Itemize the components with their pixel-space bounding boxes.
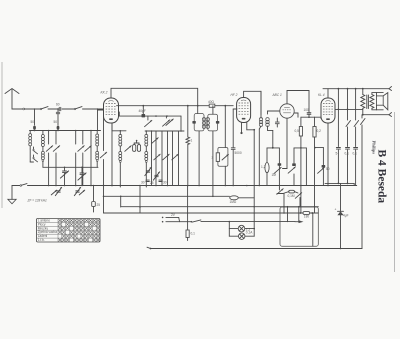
loop B left arm: [288, 148, 296, 186]
svg-text:1M: 1M: [272, 173, 277, 177]
capacitor C12: [318, 148, 330, 186]
trimmer T5b: [51, 190, 57, 195]
pilot lamp LP1: [238, 225, 245, 232]
bus Q y213: [104, 212, 319, 214]
svg-text:5·: 5·: [336, 152, 339, 156]
svg-text:ZF = 128 kHz: ZF = 128 kHz: [27, 199, 48, 203]
IF1 tuned circuit B: [206, 106, 219, 197]
bus bottom y247: [147, 247, 362, 249]
resistor R3: [212, 153, 229, 162]
trimmer T2: [53, 146, 59, 152]
osc coil L5 lower: [145, 146, 148, 187]
antenna coil L1: [29, 131, 32, 150]
resistor R4 0.5M: [295, 117, 303, 213]
speaker field wire bottom: [363, 113, 392, 117]
wire x156 drop: [155, 131, 157, 186]
grid capacitor chain x233.2: [231, 109, 242, 186]
capacitor C14: [345, 148, 350, 184]
osc coil L4 lower: [119, 146, 122, 187]
svg-text:30: 30: [163, 181, 167, 185]
wire HF2 cathode: [247, 123, 255, 131]
wire ABC1 cathode: [283, 118, 288, 168]
padder C5: [78, 167, 86, 185]
tube KK2: [104, 98, 119, 123]
capacitor C17 x93.5: [92, 185, 101, 212]
gang capacitor C6: [133, 140, 141, 152]
loop B right arm: [305, 148, 307, 186]
coil L3 lower: [96, 146, 99, 167]
wire x103.5 vert: [100, 110, 106, 213]
wire osc top: [112, 123, 126, 132]
svg-text:KK 2: KK 2: [101, 91, 108, 95]
label ZF: [27, 199, 48, 203]
loudspeaker LS1: [377, 93, 388, 110]
wire KL4 grid: [315, 117, 322, 118]
resistor R2 zigzag: [186, 137, 193, 186]
resistor R8 180ohm: [300, 212, 314, 219]
coil L2 lower: [41, 147, 44, 168]
ground terminal: [8, 186, 16, 204]
title B 4 Beseda: [376, 150, 388, 204]
switch S3a: [33, 147, 38, 154]
wire x91 drop: [90, 131, 92, 186]
svg-text:30: 30: [141, 181, 145, 185]
svg-text:4μF: 4μF: [343, 214, 349, 218]
padder C8: [150, 172, 160, 185]
svg-text:5000: 5000: [235, 151, 242, 155]
switch S1 (waveband): [25, 107, 49, 110]
cap C9a: [141, 180, 149, 184]
wire ground bus: [12, 184, 33, 187]
label HF2: [231, 93, 238, 97]
pilot lamp LP2: [239, 228, 254, 240]
svg-text:0,1: 0,1: [353, 152, 358, 156]
svg-text:40Ω: 40Ω: [208, 100, 215, 104]
wire x55.7 drop: [55, 131, 57, 186]
wire x197.7 to IF1: [197, 106, 199, 114]
wire x187.6 vert: [187, 186, 189, 231]
wire x75.7 drop: [75, 131, 77, 186]
switch S7: [346, 89, 351, 147]
page left edge: [1, 62, 3, 208]
bus bottom of coils y166.5: [43, 167, 98, 169]
fuse F1 oval: [261, 148, 269, 186]
volume pot P1: [272, 148, 282, 188]
switch S2: [74, 107, 82, 110]
switch S6a: [145, 116, 152, 127]
wire grid bus y117.2: [301, 116, 315, 118]
svg-text:+: +: [335, 208, 337, 212]
svg-text:100: 100: [304, 108, 310, 112]
switch S5: [163, 154, 169, 160]
bus y196.3: [103, 196, 230, 198]
title Philips: [371, 141, 376, 155]
cap IF2: [275, 118, 279, 127]
capacitor C11 100pF: [304, 108, 311, 117]
resistor network loop: [218, 148, 228, 167]
wire KK2 grid left: [98, 109, 104, 111]
bus ground y185.5: [33, 185, 357, 187]
power box outline: [280, 207, 318, 246]
wire x162 drop: [161, 131, 163, 186]
svg-text:180: 180: [304, 214, 310, 218]
svg-text:0,1: 0,1: [345, 152, 350, 156]
wire inside power box: [283, 206, 313, 246]
wire x225.3 drop: [224, 105, 226, 148]
svg-text:40pF: 40pF: [139, 109, 146, 113]
trimmer T7: [125, 146, 131, 152]
svg-text:1MΩ: 1MΩ: [230, 200, 237, 204]
trimmer T4: [85, 146, 91, 152]
arrow end bus R: [295, 220, 304, 223]
switch S9 mains: [191, 220, 295, 223]
svg-text:1: 1: [191, 139, 193, 143]
wire KK2 anode y105.7: [117, 105, 234, 107]
capacitor C15: [353, 148, 358, 186]
trimmer T1: [46, 146, 52, 152]
svg-text:ABC 1: ABC 1: [272, 93, 282, 97]
wire x140 vert: [139, 185, 141, 213]
coil L3 upper: [96, 131, 99, 147]
bus y183.4 right: [325, 183, 354, 186]
switch S4: [154, 154, 160, 160]
pilot lamp stubs 2V: [162, 213, 191, 222]
wire x284 down: [283, 194, 285, 207]
IF2 winding A: [259, 91, 262, 185]
wire ABC1 anode right: [294, 113, 298, 117]
potentiometer P4 1M: [230, 196, 255, 204]
wire R3 bottom: [224, 166, 226, 185]
capacitor C13: [336, 148, 341, 184]
svg-text:0,1A: 0,1A: [246, 231, 253, 235]
resistor R1 40k: [208, 100, 215, 107]
padder C4: [60, 167, 68, 185]
wire HF2 top loop: [244, 91, 261, 114]
label KK2: [101, 91, 108, 95]
svg-text:50: 50: [31, 120, 35, 124]
valve voltage table: [37, 218, 101, 242]
wire x48.6 drop: [48, 131, 50, 186]
trimmer T5: [55, 187, 61, 195]
transformer TR1 secondary: [370, 93, 377, 110]
wire x340.5 bottom: [340, 248, 342, 250]
switch S6b: [163, 116, 174, 126]
lamp feed loop: [229, 221, 239, 236]
transformer TR1 core: [367, 95, 369, 109]
svg-text:0,5: 0,5: [295, 129, 300, 133]
page right edge: [394, 112, 396, 272]
coil L2 upper: [41, 131, 44, 147]
wire: [62, 108, 74, 110]
wire x338.4 drop: [337, 89, 339, 147]
wire x362 down to bus: [361, 115, 366, 249]
switch S3b: [30, 149, 37, 162]
tube HF2: [237, 98, 251, 123]
svg-text:HF 2: HF 2: [231, 93, 238, 97]
wire KL4 cathode: [327, 123, 329, 186]
wire x178.5 drop: [178, 131, 180, 186]
wire x187.8 drop: [187, 106, 189, 137]
tube ABC1: [280, 104, 294, 118]
svg-text:0,1: 0,1: [191, 232, 196, 236]
wire KK2 top loop: [111, 88, 198, 105]
svg-text:60: 60: [56, 103, 60, 107]
wire x254.2 vert: [253, 130, 255, 236]
wire drop x34.5: [34, 108, 36, 125]
electrolytic C16 4uF: [335, 208, 349, 218]
trimmer T6b: [79, 190, 85, 195]
IF2 winding B: [266, 111, 274, 149]
wire: [48, 108, 57, 110]
loop C top: [314, 147, 323, 149]
osc coil L5 upper: [145, 131, 148, 146]
svg-text:0,2: 0,2: [317, 129, 322, 133]
cap C9b: [159, 180, 167, 184]
wire x167.5 drop: [167, 131, 169, 186]
svg-text:KL 4: KL 4: [318, 93, 325, 97]
wire x172.5 drop: [172, 131, 174, 186]
trimmer T8: [152, 138, 158, 144]
label KL4: [318, 93, 325, 97]
trimmer T9: [172, 154, 178, 160]
wire antenna to switch S1: [12, 108, 25, 110]
resistor R9 small: [283, 190, 298, 198]
antenna: [5, 89, 19, 110]
resistor R7: [186, 230, 195, 241]
tube KL4: [321, 98, 335, 123]
bus osc top y131: [145, 130, 184, 132]
bus top of antenna coils y130.5: [30, 130, 101, 132]
speaker field wire top: [363, 87, 392, 91]
svg-text:25: 25: [150, 181, 154, 185]
padder C7: [145, 167, 151, 175]
wire x340.5 down: [340, 183, 342, 248]
capacitor C40 40pF: [139, 106, 146, 118]
wire KL4 anode y109.4: [335, 109, 363, 111]
feedthrough bead C2: [31, 120, 36, 130]
svg-text:50: 50: [326, 167, 330, 171]
svg-text:50: 50: [54, 120, 58, 124]
svg-text:2: 2: [212, 156, 214, 160]
switch S8: [354, 89, 359, 147]
svg-text:1.f.b.: 1.f.b.: [38, 238, 45, 242]
wire HF2 bottom left lead: [240, 123, 242, 135]
trimmer T6: [74, 187, 80, 195]
svg-text:0,1M: 0,1M: [288, 194, 295, 198]
junction x58 drop: [56, 108, 59, 125]
loop A top: [267, 147, 279, 149]
svg-text:1,2: 1,2: [261, 165, 266, 169]
resistor R5 0.2M: [313, 117, 321, 213]
wire drop x97.5: [97, 108, 99, 130]
capacitor C1 60pF: [56, 103, 61, 111]
label ABC1: [272, 93, 282, 97]
transformer TR1 primary: [361, 88, 365, 116]
pot P3: [295, 193, 301, 207]
wire ABC1 top loop: [287, 91, 309, 113]
loop B top: [294, 147, 306, 149]
svg-text:B 4 Beseda: B 4 Beseda: [376, 150, 388, 204]
feedthrough bead C3: [54, 120, 60, 130]
wire KK2 anode2 y116.1: [119, 112, 181, 131]
wire KK2 cathode down: [111, 123, 113, 186]
pot P2: [277, 188, 283, 194]
wire KL4 top: [323, 88, 363, 98]
osc coil L4 upper: [119, 131, 122, 146]
lamp right leads: [245, 228, 255, 236]
wire x121 vert: [120, 196, 122, 208]
svg-text:25: 25: [97, 203, 101, 207]
trimmer T3: [78, 146, 84, 152]
wire x82.8 drop: [82, 131, 84, 186]
wire x151.5 drop: [151, 131, 153, 186]
bus P y206.7: [121, 206, 319, 208]
wire to coil top: [83, 108, 105, 110]
wire ABC1 grid: [268, 110, 280, 112]
IF1 tuned circuit A: [192, 114, 205, 186]
